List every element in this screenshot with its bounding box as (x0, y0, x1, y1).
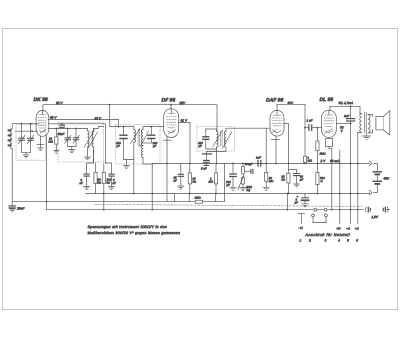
jack chevron bottom (369, 190, 372, 195)
wire IF1 primary bottom down (133, 160, 135, 194)
svg-text:pF: pF (116, 144, 121, 148)
ground transformer (363, 136, 371, 139)
wire riser x215.7 (215, 194, 217, 202)
variable capacitor C4 oscillator (65, 128, 71, 147)
capacitor C11 5nF feedthrough (204, 154, 210, 166)
resistor R9 500 ohm (316, 163, 319, 193)
capacitor C6 (84, 174, 90, 189)
node antenna top junction (21, 123, 23, 125)
wire osc coil bottoms down (88, 150, 94, 163)
wire riser right end (223, 163, 225, 201)
svg-text:61 V: 61 V (181, 118, 188, 122)
capacitor C17 1nF (347, 106, 355, 223)
node DL anode junction (350, 105, 352, 107)
tube DAF96 (270, 110, 284, 136)
capacitor C9 200pF (143, 127, 155, 143)
wire B+ top bus (43, 105, 217, 132)
ground IF1 (124, 166, 130, 169)
node top bus junction at IF1 drop (109, 104, 111, 106)
svg-text:+H: +H (336, 227, 341, 231)
svg-text:pF: pF (198, 144, 203, 148)
capacitor C12 160pF (203, 129, 209, 147)
wire IF1 top (110, 126, 134, 128)
svg-text:2 V: 2 V (320, 159, 327, 163)
wire DL96 anode line (330, 106, 360, 113)
wire bias network feeds (87, 150, 94, 174)
wire bias to bottom bus (103, 194, 105, 210)
wire varcap common + ground (22, 152, 31, 158)
dotted box IF1 (116, 125, 161, 165)
svg-text:kΩ: kΩ (193, 180, 197, 184)
variable capacitor C1 (18, 124, 25, 153)
svg-text:−H: −H (299, 226, 304, 230)
svg-text:80V: 80V (180, 101, 187, 105)
svg-text:1: 1 (300, 239, 302, 243)
antenna coil L1 (9, 129, 13, 149)
svg-text:2MΩ: 2MΩ (319, 152, 327, 156)
svg-text:3V, 4,7mA: 3V, 4,7mA (339, 101, 354, 105)
wire AVC return line (16, 130, 38, 132)
svg-text:25nF: 25nF (16, 206, 25, 210)
wire DF96 cathode pin down (166, 140, 168, 202)
capacitor C10 25nF (178, 163, 184, 189)
wire chassis dashed line (95, 204, 362, 206)
resistor R1 10M grid leak (54, 129, 59, 154)
capacitor C8 200pF (120, 127, 127, 160)
capacitor C15 1nF coupling (255, 161, 266, 167)
tube DL96 base (325, 139, 332, 210)
wire DL96 screen to 1nF (336, 122, 350, 124)
svg-text:DK 96: DK 96 (34, 97, 48, 103)
transformer T4 output (358, 113, 373, 224)
svg-text:20V: 20V (287, 101, 295, 105)
capacitor C7 (109, 174, 115, 189)
tube DK96 (36, 111, 49, 151)
wire IF1 out to DF96 grid (151, 126, 164, 128)
dotted box input tuning (16, 125, 46, 160)
svg-text:62 V: 62 V (95, 116, 102, 120)
svg-text:Meßbereichen 300/30 V* gegen: Meßbereichen 300/30 V* gegen Masse gemes… (88, 231, 181, 235)
speaker LS (376, 111, 390, 135)
svg-text:DF 96: DF 96 (162, 98, 176, 104)
svg-text:MΩ: MΩ (209, 180, 214, 184)
capacitor C20 50uF bias (288, 170, 299, 188)
wire osc caps common (68, 147, 76, 150)
dotted box oscillator (58, 123, 103, 163)
wire IF2 secondary to DAF96 grid (226, 128, 270, 131)
svg-text:kΩ: kΩ (282, 178, 286, 182)
svg-text:nF: nF (80, 181, 84, 185)
capacitor C14 wiper (245, 169, 253, 173)
capacitor C3 50nF (60, 124, 65, 129)
svg-text:MΩ: MΩ (308, 159, 313, 163)
wire IF2 secondary bottom (207, 147, 227, 154)
svg-text:log: log (247, 188, 251, 192)
wire DAF96 cathode pin down (275, 136, 277, 164)
svg-text:6: 6 (356, 239, 358, 243)
svg-text:DAF 96: DAF 96 (266, 98, 283, 104)
svg-text:pF: pF (152, 144, 157, 148)
svg-text:kΩ: kΩ (98, 181, 102, 185)
capacitor C13 100pF (230, 163, 236, 190)
svg-text:nF: nF (113, 181, 117, 185)
capacitor C16 1nF series (305, 125, 322, 131)
wire antenna top to grid line (12, 124, 38, 129)
node bias junction (103, 193, 105, 195)
tube DF96 (164, 109, 179, 141)
svg-text:1 nF: 1 nF (307, 119, 313, 123)
node +A crossings (357, 163, 359, 165)
wire DAF96 anode line (277, 104, 305, 127)
pin -H (298, 214, 305, 224)
resistor R7 1M (303, 128, 306, 164)
wire IF1 bottom to ground (124, 160, 134, 166)
tube DL96 (322, 110, 337, 137)
svg-text:5: 5 (347, 239, 349, 243)
wire IF1 secondary top (143, 127, 151, 130)
svg-text:1nF: 1nF (344, 114, 349, 118)
svg-text:4: 4 (338, 239, 340, 243)
wire riser x189.2 (188, 194, 190, 202)
resistor R11 bias (287, 173, 290, 183)
svg-text:−A: −A (346, 227, 350, 231)
svg-text:5 nF: 5 nF (201, 167, 207, 171)
svg-text:1,5V: 1,5V (372, 215, 379, 219)
wire DK96 pin down long (46, 135, 48, 202)
svg-text:MΩ: MΩ (49, 140, 54, 144)
node top bus junction at DF96 (170, 104, 172, 106)
node 50nF top (61, 123, 63, 125)
resistor R8 2M grid (316, 128, 319, 164)
cathode bar DAF96 (271, 139, 279, 141)
svg-text:50nF: 50nF (58, 132, 65, 136)
wire IF1 coupling bottom down (143, 158, 152, 165)
svg-text:80 V: 80 V (56, 101, 63, 105)
wire bottom bus (47, 202, 364, 210)
svg-text:µF: µF (295, 201, 299, 205)
transformer T1 oscillator coil (84, 129, 98, 151)
wire filament line left end (151, 164, 153, 210)
node AVC line junction (31, 130, 33, 132)
wire DK96 grid to oscillator (48, 124, 105, 163)
potentiometer P1 volume (238, 163, 246, 190)
svg-text:DL 96: DL 96 (320, 97, 334, 103)
svg-text:3: 3 (325, 239, 327, 243)
variable capacitor C5 padder (73, 128, 79, 147)
capacitor C19 25nF antenna (9, 202, 15, 212)
svg-text:1nF: 1nF (256, 156, 261, 160)
ground IF2 single bar (203, 153, 212, 155)
svg-text:62 V: 62 V (50, 115, 57, 119)
wire ground line (12, 201, 224, 203)
wire DAF96 diode line down (284, 124, 289, 194)
wire DF96 anode riser (170, 105, 172, 109)
battery B2 1.5V with jacks (366, 207, 390, 212)
svg-text:+A: +A (355, 227, 359, 231)
jack chevron top (369, 161, 372, 166)
transformer T2 IF1 (131, 127, 149, 160)
svg-text:Spannungen mit Instrument 2: Spannungen mit Instrument 20kΩ/V in den (88, 225, 168, 229)
resistor R2 50k (94, 172, 97, 193)
wire diode return riser (265, 128, 267, 163)
ground osc coil (85, 157, 91, 160)
wire DF96 screen drop (178, 123, 190, 164)
wire cathode bus y163.4 (152, 162, 369, 164)
wire DK96 screen to IF1 (48, 120, 119, 127)
wire osc coil tops (94, 127, 104, 129)
resistor R5 1M (214, 163, 217, 193)
battery B1 67V (373, 172, 381, 193)
wire drop to bottom bus (287, 194, 289, 210)
dotted box IF2 (197, 127, 235, 152)
resistor R4 80k (188, 163, 191, 193)
transformer T3 IF2 (206, 129, 232, 164)
svg-text:65V: 65V (384, 177, 391, 181)
ground osc caps (69, 150, 75, 153)
svg-text:nF: nF (174, 179, 178, 183)
resistor R6 10M (263, 163, 269, 190)
variable capacitor C2 (27, 123, 34, 153)
svg-text:µF: µF (300, 178, 304, 182)
wire return bus y193.5 (86, 192, 370, 195)
svg-text:65 mA: 65 mA (330, 159, 339, 163)
wire DK96 osc grid line W3 (48, 128, 87, 130)
svg-text:Anschluß für Netzteil: Anschluß für Netzteil (305, 233, 351, 237)
svg-text:300pF: 300pF (245, 162, 253, 166)
capacitor C18 8uF electrolytic (302, 194, 309, 207)
plug bracket (312, 214, 328, 223)
wire antenna coil bottom down (11, 149, 13, 202)
svg-text:1MΩ: 1MΩ (195, 196, 202, 200)
connector contact circles (314, 208, 317, 211)
svg-text:pF: pF (226, 183, 231, 187)
pin +H (339, 150, 341, 224)
resistor R3 (102, 172, 105, 193)
wire riser x174.5 (174, 194, 176, 202)
svg-text:2: 2 (308, 239, 311, 243)
wire IF1 feed drop (109, 105, 111, 127)
resistor R10 1M box (195, 200, 202, 203)
svg-text:MΩ: MΩ (269, 179, 274, 183)
